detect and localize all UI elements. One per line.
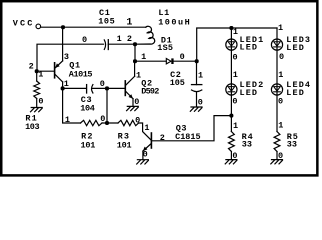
resistor R5: [274, 132, 280, 152]
LED1: [226, 39, 237, 50]
node junction R2 / R3 / C3 column: [105, 121, 109, 125]
label C2 value: [170, 78, 185, 88]
label R5 ref: [287, 132, 299, 142]
node junction D1 anode / Q2 collector: [133, 59, 137, 63]
label Q3 value: [175, 132, 201, 142]
label R3 ref: [118, 132, 131, 142]
svg-text:1: 1: [141, 52, 146, 62]
label R2 ref: [81, 132, 94, 142]
svg-text:1: 1: [233, 121, 238, 131]
label D1 ref: [161, 36, 172, 46]
svg-text:0: 0: [278, 97, 283, 107]
node junction D1 / C2 / LED rail: [195, 59, 199, 63]
svg-text:1: 1: [38, 70, 43, 80]
label C1 value: [98, 17, 115, 27]
pin number 1 at R5 top: [278, 121, 283, 131]
svg-text:LED: LED: [240, 88, 259, 98]
label Q1 value: [69, 69, 93, 79]
diode D1: [166, 58, 173, 64]
svg-text:105: 105: [170, 78, 185, 88]
label LED2 ref: [240, 80, 265, 90]
svg-text:101: 101: [81, 140, 96, 150]
pin number 3 at Q1 emitter: [64, 52, 69, 62]
pin number 1 above LED1: [233, 27, 238, 37]
svg-text:0: 0: [100, 114, 105, 124]
pin number 1 above LED3: [278, 23, 283, 33]
svg-text:LED: LED: [286, 88, 305, 98]
svg-text:1: 1: [278, 23, 283, 33]
svg-text:101: 101: [117, 140, 132, 150]
svg-text:1: 1: [144, 123, 149, 133]
LED3: [271, 39, 282, 50]
wire D1 anode: [135, 60, 166, 62]
svg-text:0: 0: [135, 116, 140, 126]
wire R4 bottom stem: [230, 152, 232, 160]
pin number 1 at C1 right: [117, 34, 122, 44]
capacitor C2: [192, 85, 202, 92]
pin number 1 above LED2: [233, 70, 238, 80]
pin number 0 right of D1: [180, 52, 185, 62]
LED4: [271, 84, 282, 95]
capacitor C3: [87, 85, 93, 93]
wire C1 to L1 junction: [108, 43, 135, 45]
wire C2 top stem: [196, 61, 198, 84]
svg-text:1: 1: [233, 27, 238, 37]
svg-text:1: 1: [198, 70, 203, 80]
svg-text:3: 3: [64, 52, 69, 62]
pin number 0 at C3 right: [100, 79, 105, 89]
pin number 0 below LED1: [233, 52, 238, 62]
svg-text:0: 0: [100, 79, 105, 89]
label D1 value: [157, 43, 173, 53]
ground below Q2 emitter: [127, 106, 139, 110]
svg-text:1: 1: [126, 18, 132, 29]
pin number 1 at Q2 collector: [136, 70, 141, 80]
label R2 value: [81, 140, 96, 150]
svg-text:VCC: VCC: [13, 19, 35, 29]
svg-text:0: 0: [82, 35, 87, 45]
wire C2 bottom stem: [196, 92, 198, 107]
pin number 0 below LED2: [232, 97, 237, 107]
label LED4 ref: [286, 80, 311, 90]
wire R3 to Q3 base corner: [139, 123, 152, 140]
svg-text:LED: LED: [240, 43, 259, 53]
svg-text:0: 0: [233, 52, 238, 62]
wire VCC rail: [41, 26, 146, 28]
wire LED1-LED2 branch vertical: [230, 28, 232, 132]
svg-text:103: 103: [25, 122, 39, 132]
label Q2 value: [141, 87, 159, 97]
ground below C2: [190, 107, 202, 111]
label LED3 ref: [286, 35, 311, 45]
pin number 1 left of D1: [141, 52, 146, 62]
resistor R1: [34, 81, 40, 99]
pin number 0 at C1 left: [82, 35, 87, 45]
svg-text:1: 1: [278, 121, 283, 131]
wire C3 to Q2 base: [93, 87, 125, 89]
svg-text:1: 1: [233, 70, 238, 80]
label Q3 ref: [176, 124, 187, 134]
LED2: [226, 84, 237, 95]
pin number 0 at C2 bottom: [198, 98, 203, 108]
pin number 1 at R2 left: [65, 115, 70, 125]
ground below R5: [271, 160, 283, 164]
border frame: [1, 1, 317, 175]
wire Q2 collector vertical: [134, 61, 136, 76]
node junction Q1 base / R1 / C1 branch: [35, 69, 39, 73]
svg-text:1: 1: [65, 115, 70, 125]
node junction C3 / Q2 base / R2-R3 column: [105, 86, 109, 90]
wire LED3-LED4 branch vertical: [276, 28, 278, 132]
ground below R4: [225, 160, 237, 164]
svg-text:104: 104: [80, 103, 95, 113]
svg-text:0: 0: [38, 97, 43, 107]
pin number 0 at Q3 emitter: [143, 150, 148, 160]
node junction Q1 collector / C3 / R2 branch: [61, 86, 65, 90]
label LED4 value: [286, 88, 305, 98]
pin number 1 above LED4: [278, 70, 283, 80]
node junction VCC rail to Q1 emitter: [61, 25, 65, 29]
label R3 value: [117, 140, 132, 150]
svg-text:105: 105: [98, 17, 115, 27]
svg-text:A1015: A1015: [69, 69, 93, 79]
wire from Q1 collector node down to R2: [63, 88, 81, 123]
transistor Q3 C1815 NPN: [143, 133, 152, 151]
pin number 0 at R5 bottom: [278, 151, 283, 161]
inductor L1 coil: [135, 26, 155, 44]
label R4 value: [242, 140, 252, 150]
wire Q3 emitter stem: [142, 151, 144, 160]
svg-text:0: 0: [232, 97, 237, 107]
ground below R1: [31, 108, 43, 112]
svg-text:1S5: 1S5: [157, 43, 173, 53]
svg-text:0: 0: [180, 52, 185, 62]
wire C3 left: [63, 87, 87, 89]
label C2 ref: [170, 70, 181, 80]
pin number 0 at R3 right: [135, 116, 140, 126]
svg-text:1: 1: [278, 70, 283, 80]
wire Q1 collector vertical: [62, 82, 64, 89]
pin number 0 at R4 bottom: [232, 151, 237, 161]
pin number 1 at Q3 top: [144, 123, 149, 133]
wire L1 junction down to D1 level: [134, 44, 136, 61]
label R5 value: [287, 140, 297, 150]
label LED1 ref: [240, 35, 265, 45]
label VCC net: [13, 19, 35, 29]
resistor R2: [81, 120, 103, 125]
label Q2 ref: [141, 79, 152, 89]
label LED1 value: [240, 43, 259, 53]
svg-text:33: 33: [287, 140, 297, 150]
pin number 2 at Q1 base: [29, 61, 34, 71]
label C3 value: [80, 103, 95, 113]
svg-text:2: 2: [29, 61, 34, 71]
node junction LED rail / LED1 branch: [229, 26, 233, 30]
ground below Q3 emitter: [137, 160, 149, 164]
node junction LED2 / R4 / Q3 collector: [229, 114, 233, 118]
pin number 2 near L1 junction: [127, 34, 132, 44]
pin number 2 at Q3 collector: [160, 133, 165, 143]
label C3 ref: [81, 95, 92, 105]
resistor R3: [118, 120, 139, 125]
label LED3 value: [286, 43, 305, 53]
pin number 1 at Q1 collector: [64, 79, 69, 89]
label LED2 value: [240, 88, 259, 98]
svg-text:100uH: 100uH: [158, 18, 191, 28]
transistor Q1 A1015 PNP: [55, 61, 63, 82]
pin number 0 below LED3: [279, 52, 284, 62]
wire from Q1 base corner to C1: [37, 44, 104, 71]
pin number 0 at Q2 emitter: [134, 97, 139, 107]
label R1 value: [25, 122, 39, 132]
svg-text:0: 0: [134, 97, 139, 107]
wire R2 to R3: [102, 122, 118, 124]
resistor R4: [229, 132, 235, 152]
label net 1 on VCC rail: [126, 18, 132, 29]
wire C3 node down to R2-R3 junction: [106, 88, 108, 123]
wire Q1 base: [37, 70, 54, 72]
pin number 0 above R2-R3 junction: [100, 114, 105, 124]
svg-text:0: 0: [198, 98, 203, 108]
label L1 ref: [158, 8, 169, 18]
svg-text:D592: D592: [141, 87, 159, 97]
wire Q3 collector step to LED2-R4 node: [152, 116, 231, 141]
wire R1 top stem: [36, 71, 38, 81]
pin number 1 at C2 top: [198, 70, 203, 80]
pin number 1 at R4 top: [233, 121, 238, 131]
wire LED top rail: [197, 28, 277, 61]
pin number 1 below Q1 base node: [38, 70, 43, 80]
wire D1 cathode: [174, 60, 197, 62]
label C1 ref: [99, 8, 110, 18]
transistor Q2 D592 NPN: [125, 76, 134, 98]
node junction C1 / L1 / D1 branch: [133, 42, 137, 46]
wire Q2 emitter stem: [132, 99, 134, 107]
svg-text:1: 1: [117, 34, 122, 44]
label R4 ref: [242, 132, 254, 142]
svg-text:2: 2: [127, 34, 132, 44]
wire R1 bottom stem: [36, 99, 38, 108]
label R1 ref: [25, 114, 37, 124]
pin number 0 at R1 bottom: [38, 97, 43, 107]
label Q1 ref: [69, 60, 80, 70]
svg-text:1: 1: [136, 70, 141, 80]
VCC terminal circle: [36, 24, 41, 29]
svg-text:LED: LED: [286, 43, 305, 53]
wire R5 bottom stem: [276, 152, 278, 160]
svg-text:0: 0: [279, 52, 284, 62]
pin number 0 below LED4: [278, 97, 283, 107]
label L1 value: [158, 18, 191, 28]
wire Q1 emitter vertical: [62, 27, 64, 61]
svg-text:1: 1: [64, 79, 69, 89]
capacitor C1: [104, 40, 108, 50]
svg-text:33: 33: [242, 140, 252, 150]
